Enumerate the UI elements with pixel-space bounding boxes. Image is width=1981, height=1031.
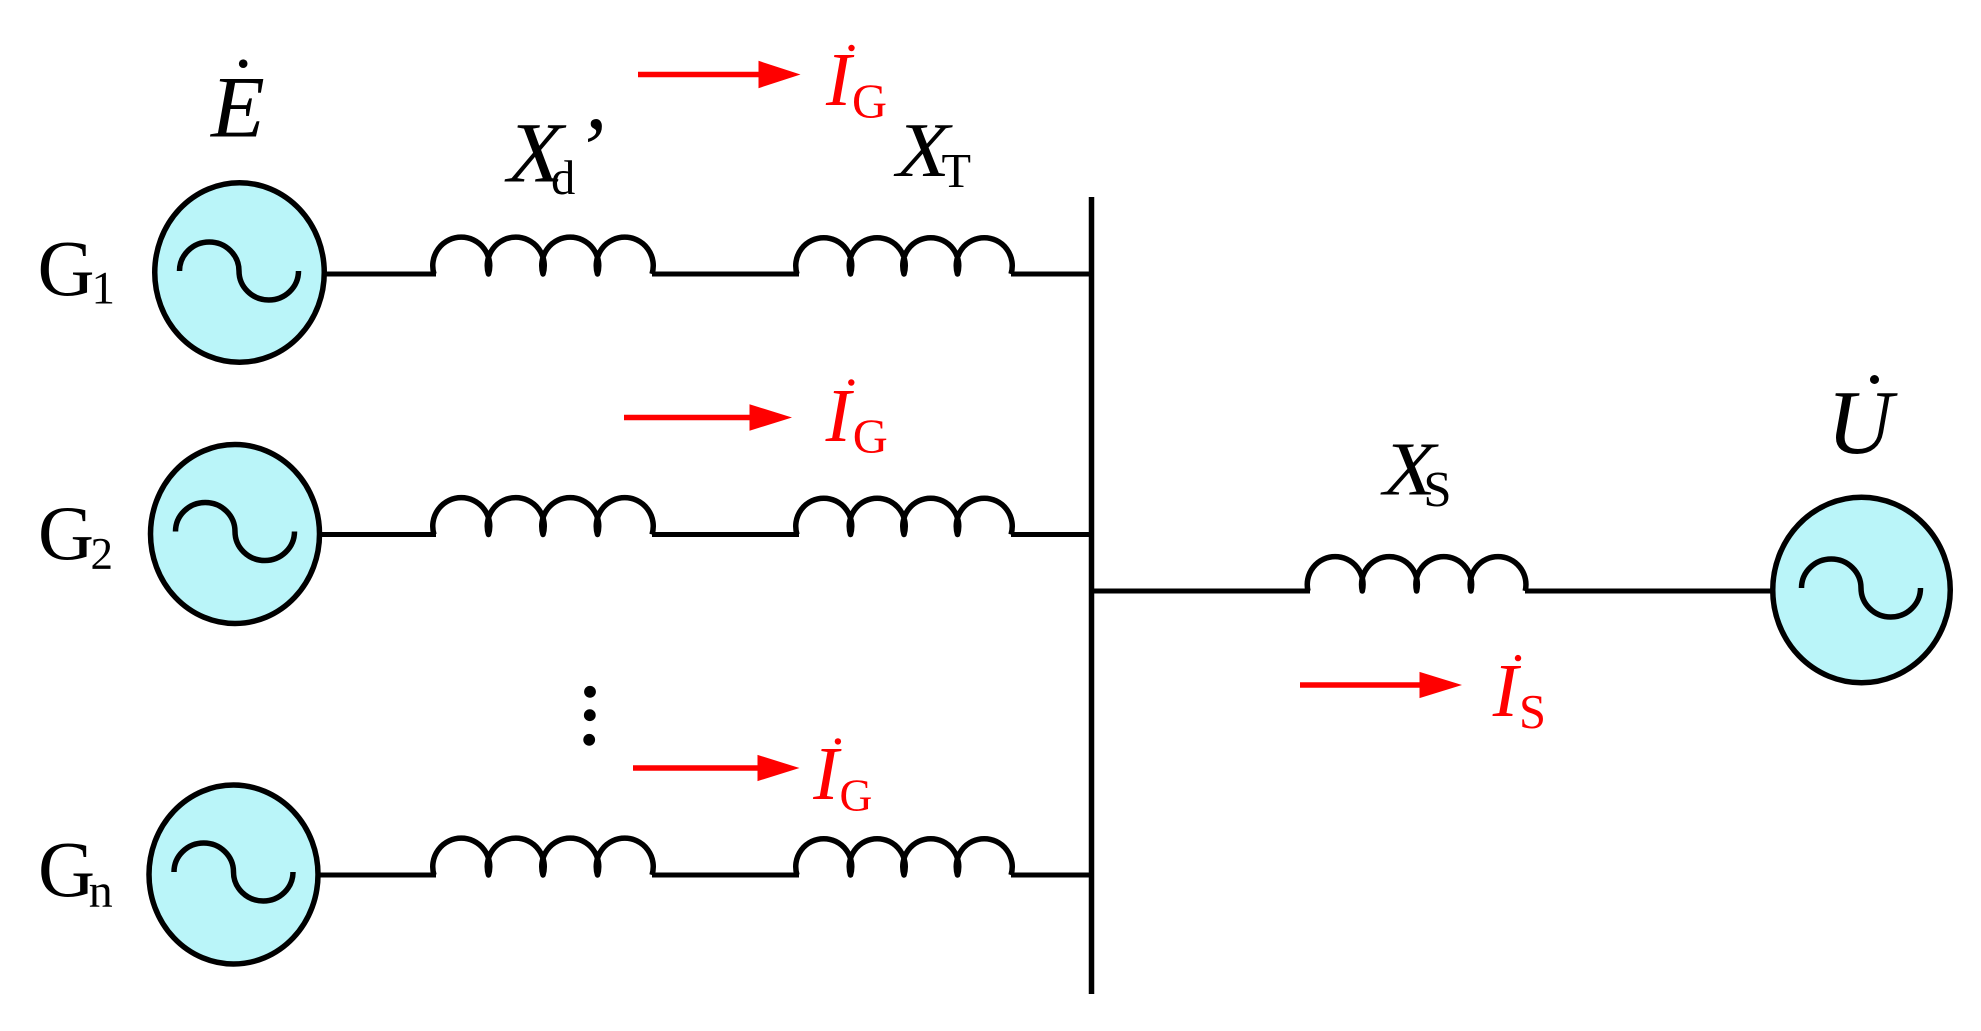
svg-text:G: G <box>38 827 95 914</box>
red label IG row1 <box>825 38 887 128</box>
svg-text:2: 2 <box>91 529 114 579</box>
red arrow IG row1 <box>638 61 801 88</box>
generator Gn <box>149 785 318 964</box>
red arrow IG rown <box>633 755 800 781</box>
red label IS <box>1492 649 1546 739</box>
svg-text:S: S <box>1519 686 1546 739</box>
svg-text:G: G <box>840 770 873 821</box>
svg-text:G: G <box>38 490 94 576</box>
generator G1 <box>155 183 325 363</box>
label Xd' <box>504 100 604 205</box>
sine inside G2 <box>176 502 295 560</box>
inductor XS <box>1307 557 1526 591</box>
svg-text:U: U <box>1827 372 1898 473</box>
wire row2 G2 to Xd <box>319 532 436 537</box>
red label IG rown <box>812 732 872 821</box>
bus bar <box>1089 197 1095 994</box>
label XT <box>893 107 971 198</box>
wire rown to bus <box>1011 873 1094 878</box>
wire row1 to bus <box>1011 272 1094 277</box>
sine inside U <box>1802 559 1921 617</box>
svg-text:1: 1 <box>92 262 116 314</box>
inductor XT rown <box>796 839 1013 875</box>
vertical dots <box>583 686 596 746</box>
inductor XT row1 <box>796 238 1013 274</box>
red label IG row2 <box>825 374 888 464</box>
label Gn <box>38 827 113 918</box>
wire row2 mid <box>652 532 799 537</box>
inductor XT row2 <box>796 498 1013 534</box>
wire row1 mid <box>652 272 799 277</box>
wire row1 G1 to Xd <box>322 272 436 277</box>
sine inside Gn <box>174 843 293 901</box>
red arrow IG row2 <box>624 404 792 430</box>
svg-text:T: T <box>942 145 972 198</box>
svg-text:I: I <box>1492 649 1522 733</box>
label U-dot <box>1827 372 1898 473</box>
wire bus to XS <box>1092 589 1311 594</box>
label G1 <box>38 226 116 314</box>
svg-text:n: n <box>89 865 113 918</box>
svg-text:I: I <box>812 732 842 816</box>
svg-text:G: G <box>853 411 888 464</box>
svg-text:E: E <box>209 60 265 157</box>
wire row2 to bus <box>1011 532 1094 537</box>
sine inside G1 <box>180 242 299 300</box>
svg-text:’: ’ <box>575 100 605 199</box>
inductor Xd' row1 <box>433 237 654 274</box>
generator G2 <box>151 445 320 624</box>
svg-text:G: G <box>852 75 887 128</box>
label E-dot <box>209 59 265 156</box>
svg-text:I: I <box>825 374 855 458</box>
wire rown Gn to Xd <box>317 873 436 878</box>
inductor Xd' rown <box>433 838 654 875</box>
svg-text:S: S <box>1423 462 1451 518</box>
red arrow IS <box>1300 672 1462 698</box>
label XS <box>1380 426 1451 518</box>
label G2 <box>38 490 113 579</box>
inductor Xd' row2 <box>433 498 654 535</box>
svg-text:G: G <box>38 226 95 313</box>
source U <box>1773 497 1951 683</box>
wire XS to U <box>1525 589 1774 594</box>
svg-text:d: d <box>551 151 575 205</box>
wire rown mid <box>652 873 799 878</box>
